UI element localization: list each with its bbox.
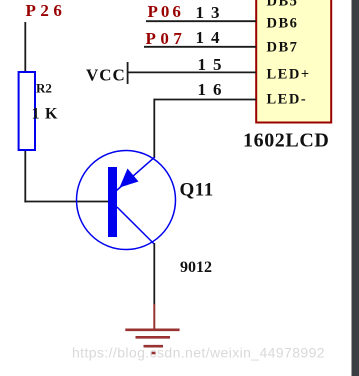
svg-text:1K: 1K [32,106,63,123]
svg-text:DB6: DB6 [267,16,299,32]
svg-text:LED-: LED- [267,92,308,108]
svg-text:P06: P06 [148,2,184,21]
svg-text:R2: R2 [36,81,52,96]
svg-text:VCC: VCC [86,66,126,85]
svg-text:1602LCD: 1602LCD [243,130,329,152]
svg-text:DB7: DB7 [267,40,299,56]
svg-text:Q11: Q11 [180,180,214,201]
svg-text:14: 14 [196,28,227,47]
svg-text:https://blog.csdn.net/weixin_4: https://blog.csdn.net/weixin_44978992 [72,345,325,361]
svg-text:DB5: DB5 [267,0,299,10]
svg-text:15: 15 [198,55,229,74]
svg-text:P26: P26 [26,1,67,20]
svg-text:P07: P07 [146,29,187,48]
svg-text:9012: 9012 [180,259,212,276]
svg-text:16: 16 [198,80,229,99]
svg-text:LED+: LED+ [267,67,311,83]
svg-text:13: 13 [196,3,227,22]
